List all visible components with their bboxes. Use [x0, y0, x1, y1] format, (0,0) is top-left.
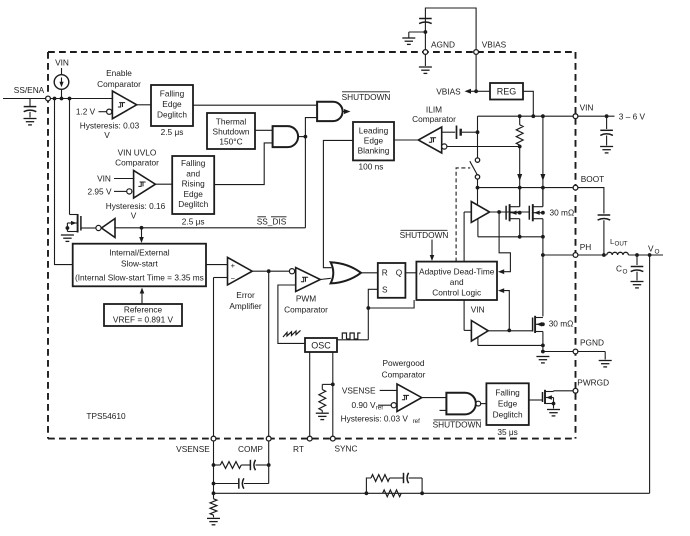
- svg-text:VIN: VIN: [471, 304, 485, 314]
- svg-text:Deglitch: Deglitch: [157, 109, 187, 119]
- svg-text:2.95 V: 2.95 V: [88, 187, 112, 197]
- svg-text:SS_DIS: SS_DIS: [257, 217, 287, 227]
- svg-text:OSC: OSC: [311, 341, 331, 351]
- svg-text:ref: ref: [413, 418, 421, 425]
- svg-text:AGND: AGND: [431, 40, 455, 50]
- svg-text:VIN: VIN: [97, 174, 111, 184]
- svg-text:Rising: Rising: [182, 179, 205, 189]
- svg-text:PWRGD: PWRGD: [577, 378, 609, 388]
- svg-text:V: V: [104, 130, 110, 140]
- svg-text:Deglitch: Deglitch: [178, 199, 208, 209]
- svg-text:VIN: VIN: [55, 58, 69, 68]
- svg-text:Thermal: Thermal: [216, 116, 247, 126]
- svg-text:C: C: [616, 264, 622, 274]
- svg-text:Comparator: Comparator: [412, 114, 456, 124]
- svg-text:Enable: Enable: [106, 68, 132, 78]
- svg-text:Falling: Falling: [160, 88, 185, 98]
- svg-text:VREF = 0.891 V: VREF = 0.891 V: [113, 315, 174, 325]
- svg-text:BOOT: BOOT: [581, 174, 605, 184]
- svg-text:150°C: 150°C: [219, 136, 242, 146]
- svg-text:Comparator: Comparator: [97, 79, 141, 89]
- svg-text:Amplifier: Amplifier: [229, 301, 262, 311]
- svg-text:PGND: PGND: [580, 338, 604, 348]
- svg-text:PH: PH: [580, 242, 592, 252]
- svg-text:1.2 V: 1.2 V: [76, 107, 96, 117]
- svg-text:VSENSE: VSENSE: [342, 386, 376, 396]
- svg-text:Hysteresis: 0.03 V: Hysteresis: 0.03 V: [341, 414, 409, 424]
- svg-text:Edge: Edge: [184, 189, 204, 199]
- svg-text:100 ns: 100 ns: [359, 162, 384, 172]
- svg-text:O: O: [655, 248, 660, 255]
- svg-text:Falling: Falling: [181, 158, 206, 168]
- svg-text:Hysteresis: 0.16: Hysteresis: 0.16: [106, 201, 166, 211]
- svg-text:PWM: PWM: [296, 294, 316, 304]
- svg-text:OUT: OUT: [615, 240, 628, 247]
- svg-text:Edge: Edge: [498, 398, 518, 408]
- svg-text:35 μs: 35 μs: [497, 427, 517, 437]
- svg-text:Blanking: Blanking: [358, 145, 390, 155]
- svg-text:and: and: [450, 277, 464, 287]
- svg-text:and: and: [186, 168, 200, 178]
- svg-text:O: O: [623, 268, 628, 275]
- svg-text:Falling: Falling: [495, 387, 520, 397]
- svg-text:SS/ENA: SS/ENA: [14, 85, 45, 95]
- svg-text:Comparator: Comparator: [115, 157, 159, 167]
- svg-text:COMP: COMP: [238, 444, 263, 454]
- svg-text:VIN UVLO: VIN UVLO: [118, 147, 157, 157]
- svg-text:Q: Q: [396, 268, 403, 278]
- svg-text:SYNC: SYNC: [334, 443, 357, 453]
- svg-text:V: V: [648, 244, 654, 254]
- svg-text:RT: RT: [293, 444, 304, 454]
- svg-text:Edge: Edge: [162, 99, 182, 109]
- svg-text:2.5 μs: 2.5 μs: [182, 217, 205, 227]
- svg-text:30 mΩ: 30 mΩ: [549, 319, 574, 329]
- svg-text:Slow-start: Slow-start: [121, 259, 159, 269]
- svg-text:R: R: [382, 268, 388, 278]
- svg-text:−: −: [231, 274, 236, 283]
- svg-text:Error: Error: [236, 290, 255, 300]
- svg-text:Comparator: Comparator: [284, 305, 328, 315]
- svg-text:2.5 μs: 2.5 μs: [161, 127, 184, 137]
- svg-text:VBIAS: VBIAS: [436, 87, 461, 97]
- svg-text:Comparator: Comparator: [382, 369, 426, 379]
- svg-text:SHUTDOWN: SHUTDOWN: [400, 230, 449, 240]
- svg-text:VSENSE: VSENSE: [176, 444, 210, 454]
- svg-text:Shutdown: Shutdown: [213, 126, 250, 136]
- svg-text:Deglitch: Deglitch: [493, 409, 523, 419]
- svg-text:SHUTDOWN: SHUTDOWN: [433, 419, 482, 429]
- svg-text:+: +: [231, 261, 236, 270]
- svg-text:REG: REG: [497, 86, 517, 96]
- svg-text:Hysteresis: 0.03: Hysteresis: 0.03: [80, 120, 140, 130]
- svg-text:V: V: [131, 211, 137, 221]
- svg-text:Adaptive Dead-Time: Adaptive Dead-Time: [419, 266, 495, 276]
- svg-text:0.90 V: 0.90 V: [352, 400, 376, 410]
- svg-text:Leading: Leading: [359, 125, 389, 135]
- svg-text:VBIAS: VBIAS: [482, 40, 507, 50]
- svg-text:VIN: VIN: [580, 102, 594, 112]
- svg-text:Control Logic: Control Logic: [432, 288, 481, 298]
- svg-text:Edge: Edge: [364, 135, 384, 145]
- svg-text:3 – 6 V: 3 – 6 V: [619, 112, 646, 122]
- svg-text:SHUTDOWN: SHUTDOWN: [342, 92, 391, 102]
- svg-text:TPS54610: TPS54610: [86, 411, 126, 421]
- svg-text:Internal/External: Internal/External: [109, 248, 170, 258]
- svg-text:ILIM: ILIM: [426, 104, 442, 114]
- svg-text:Reference: Reference: [124, 305, 163, 315]
- svg-text:Powergood: Powergood: [383, 358, 425, 368]
- svg-text:S: S: [382, 285, 388, 295]
- svg-text:(Internal Slow-start Time = 3.: (Internal Slow-start Time = 3.35 ms: [75, 273, 204, 283]
- svg-text:30 mΩ: 30 mΩ: [550, 208, 575, 218]
